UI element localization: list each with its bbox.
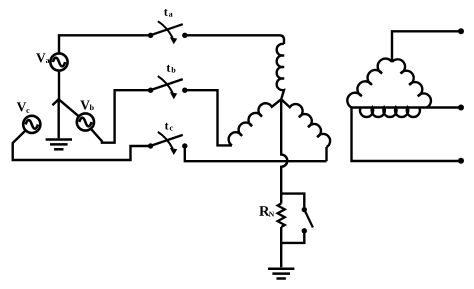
winding A (wye, phase a vertical coil) bbox=[277, 44, 284, 99]
bypass switch S1 top dot bbox=[302, 207, 307, 212]
switch ta closing arrow bbox=[158, 21, 173, 38]
wire: node to Vb bbox=[59, 99, 79, 116]
switch tc right contact dot bbox=[182, 143, 187, 148]
label tb bbox=[167, 65, 171, 72]
wire: branch to bypass switch (top) bbox=[281, 194, 304, 207]
switch tb closing arrow bbox=[158, 76, 173, 93]
voltage source Vb bbox=[77, 113, 94, 130]
switch tb left contact dot bbox=[148, 88, 153, 93]
label Vb bbox=[80, 101, 89, 110]
switch tc closing arrow bbox=[158, 132, 173, 149]
wire: bypass switch bottom to resistor bottom bbox=[281, 231, 304, 243]
bypass switch S1 bottom dot bbox=[302, 228, 307, 233]
wire: node to Vc bbox=[52, 99, 58, 105]
wire: tb to winding B bbox=[185, 90, 232, 145]
switch ta right contact dot bbox=[182, 33, 187, 38]
terminal 2 dot bbox=[458, 105, 464, 111]
delta winding: right slope coil bbox=[392, 59, 431, 107]
bypass switch S1 blade bbox=[304, 210, 313, 228]
wire: Va bottom to wye node bbox=[58, 71, 60, 100]
delta winding: bottom side line bbox=[352, 106, 427, 108]
ground: RN earth bbox=[268, 267, 294, 270]
wire: delta bottom-left to terminal 3 bbox=[352, 108, 461, 162]
wire: winding C down to phase-c run bbox=[325, 147, 327, 161]
wire: Vb to switch tb bbox=[91, 90, 151, 143]
winding B (wye, lower-left diagonal coil) bbox=[229, 99, 282, 145]
voltage source Va bbox=[50, 53, 67, 70]
switch tc left contact dot bbox=[148, 143, 153, 148]
label Vc bbox=[17, 102, 26, 111]
terminal 1 dot bbox=[458, 28, 464, 34]
wire: delta bottom-right to terminal 2 bbox=[427, 106, 461, 108]
switch ta left contact dot bbox=[148, 33, 153, 38]
label RN bbox=[259, 206, 269, 215]
wire: resistor bottom to ground bbox=[280, 227, 282, 267]
wire: tc to winding C bbox=[185, 146, 327, 161]
wire: Vc to switch tc (bottom run) bbox=[13, 130, 151, 160]
label Va bbox=[36, 53, 45, 62]
voltage source Vc bbox=[23, 116, 40, 133]
delta winding: bottom coil bumps bbox=[360, 108, 420, 117]
ground: source neutral bbox=[58, 99, 60, 138]
switch ta blade bbox=[152, 24, 183, 35]
winding C (wye, lower-right diagonal coil) bbox=[281, 99, 330, 147]
switch tc blade bbox=[152, 135, 183, 146]
label ta bbox=[164, 9, 168, 16]
switch tb right contact dot bbox=[182, 88, 187, 93]
neutral wire from wye node with crossover hop bbox=[281, 99, 287, 203]
label tc bbox=[165, 123, 169, 130]
delta winding: left slope coil bbox=[347, 59, 392, 108]
wire: delta apex to terminal 1 bbox=[392, 31, 461, 62]
wire: ta to winding A bbox=[185, 35, 284, 44]
terminal 3 dot bbox=[458, 158, 464, 164]
resistor RN zigzag bbox=[278, 204, 285, 228]
wire: Va top to horizontal bus bbox=[59, 35, 151, 53]
switch tb blade bbox=[152, 79, 183, 90]
